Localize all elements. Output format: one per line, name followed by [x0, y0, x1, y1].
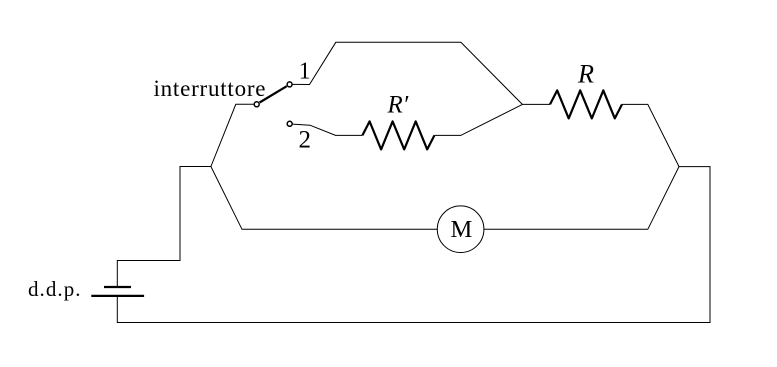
switch terminal 1 circle: [287, 82, 292, 87]
svg-text:R: R: [577, 60, 594, 89]
svg-text:interruttore: interruttore: [154, 76, 266, 101]
switch common terminal circle: [254, 102, 259, 107]
svg-text:R′: R′: [387, 92, 409, 119]
motor M circle: [437, 206, 484, 253]
svg-text:1: 1: [299, 58, 311, 84]
resistor R': [362, 121, 434, 149]
wire switch terminal 1 to node D (top branch): [292, 42, 522, 104]
wire node E to battery negative (right side and bottom return): [117, 167, 710, 323]
wire battery positive terminal up and right to node A: [117, 167, 211, 287]
wire resistor R to node E: [622, 104, 679, 166]
svg-text:M: M: [451, 216, 473, 243]
svg-text:2: 2: [299, 127, 312, 154]
wire motor M to node E: [484, 167, 679, 230]
wire node D to resistor R: [522, 103, 550, 105]
wire node A to motor M: [211, 167, 437, 230]
resistor R: [550, 90, 622, 118]
switch lever blade: [260, 86, 287, 102]
switch terminal 2 circle: [287, 121, 292, 126]
wire node A to switch common terminal: [211, 104, 254, 166]
battery B1 (d.d.p. source): [91, 287, 144, 296]
svg-text:d.d.p.: d.d.p.: [28, 277, 81, 301]
wire switch terminal 2 to resistor R': [293, 124, 363, 135]
wire resistor R' to node D: [434, 104, 522, 135]
